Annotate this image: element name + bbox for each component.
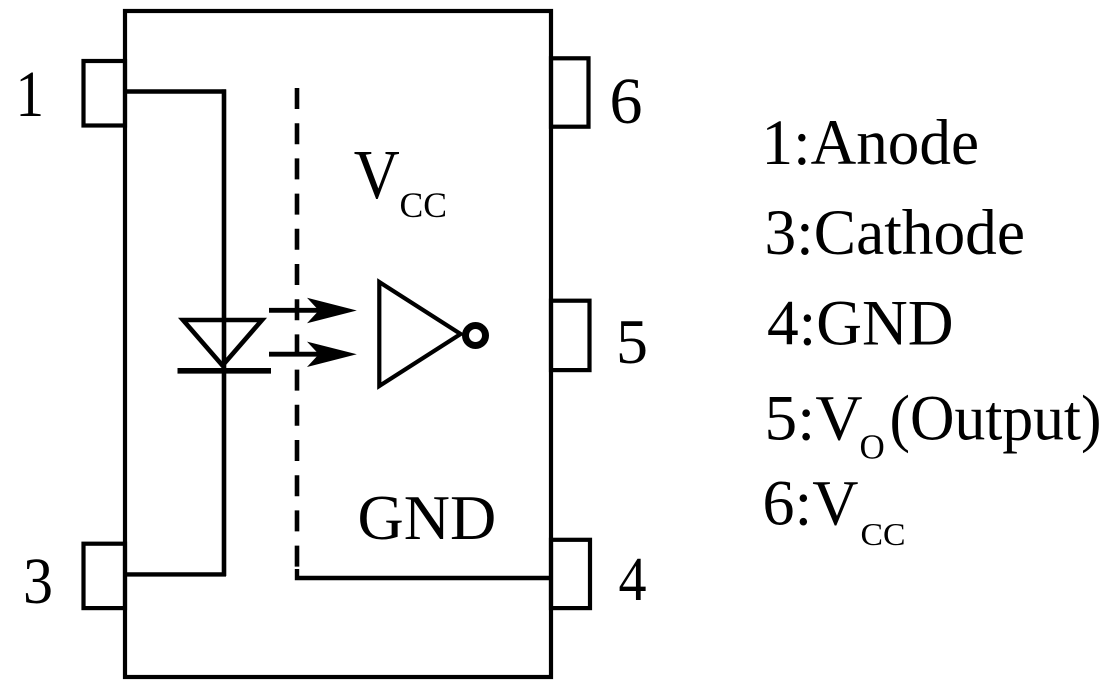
svg-text:3:Cathode: 3:Cathode [765, 197, 1026, 268]
svg-text:CC: CC [861, 516, 906, 552]
svg-text:O: O [860, 428, 885, 467]
svg-text:(Output): (Output) [890, 383, 1102, 454]
inverter output bubble [466, 326, 486, 346]
light arrow 1 shaft [269, 308, 334, 313]
svg-text:6:V: 6:V [763, 468, 859, 539]
detector inverter U1 triangle [379, 282, 460, 386]
pin 6 stub [551, 58, 589, 126]
svg-text:V: V [354, 137, 400, 214]
svg-text:CC: CC [400, 185, 448, 225]
svg-text:5:V: 5:V [765, 383, 863, 454]
svg-text:1: 1 [16, 58, 45, 131]
svg-text:5: 5 [616, 306, 648, 377]
LED D1 cathode bar [178, 368, 272, 374]
pin 4 stub [551, 540, 590, 608]
GND wire to pin 4 [297, 569, 551, 578]
pin 3 stub [84, 544, 126, 608]
svg-text:3: 3 [23, 545, 53, 618]
light arrow 2 shaft [269, 352, 334, 357]
pin 1 stub [84, 61, 126, 126]
light arrow 1 head [307, 298, 357, 323]
wire LED cathode to pin 3 [125, 572, 226, 576]
wire pin 1 to LED anode [125, 89, 226, 93]
package outline [125, 11, 551, 677]
svg-text:4: 4 [619, 546, 647, 614]
pin 5 stub [551, 301, 590, 370]
svg-text:1:Anode: 1:Anode [762, 107, 980, 178]
svg-text:6: 6 [610, 65, 643, 138]
wire LED vertical anode-cathode [222, 89, 227, 576]
light arrow 2 head [307, 342, 357, 367]
LED D1 anode triangle [183, 320, 262, 366]
optical isolation dashed line [295, 88, 300, 572]
svg-text:GND: GND [358, 482, 497, 553]
svg-text:4:GND: 4:GND [767, 288, 954, 360]
